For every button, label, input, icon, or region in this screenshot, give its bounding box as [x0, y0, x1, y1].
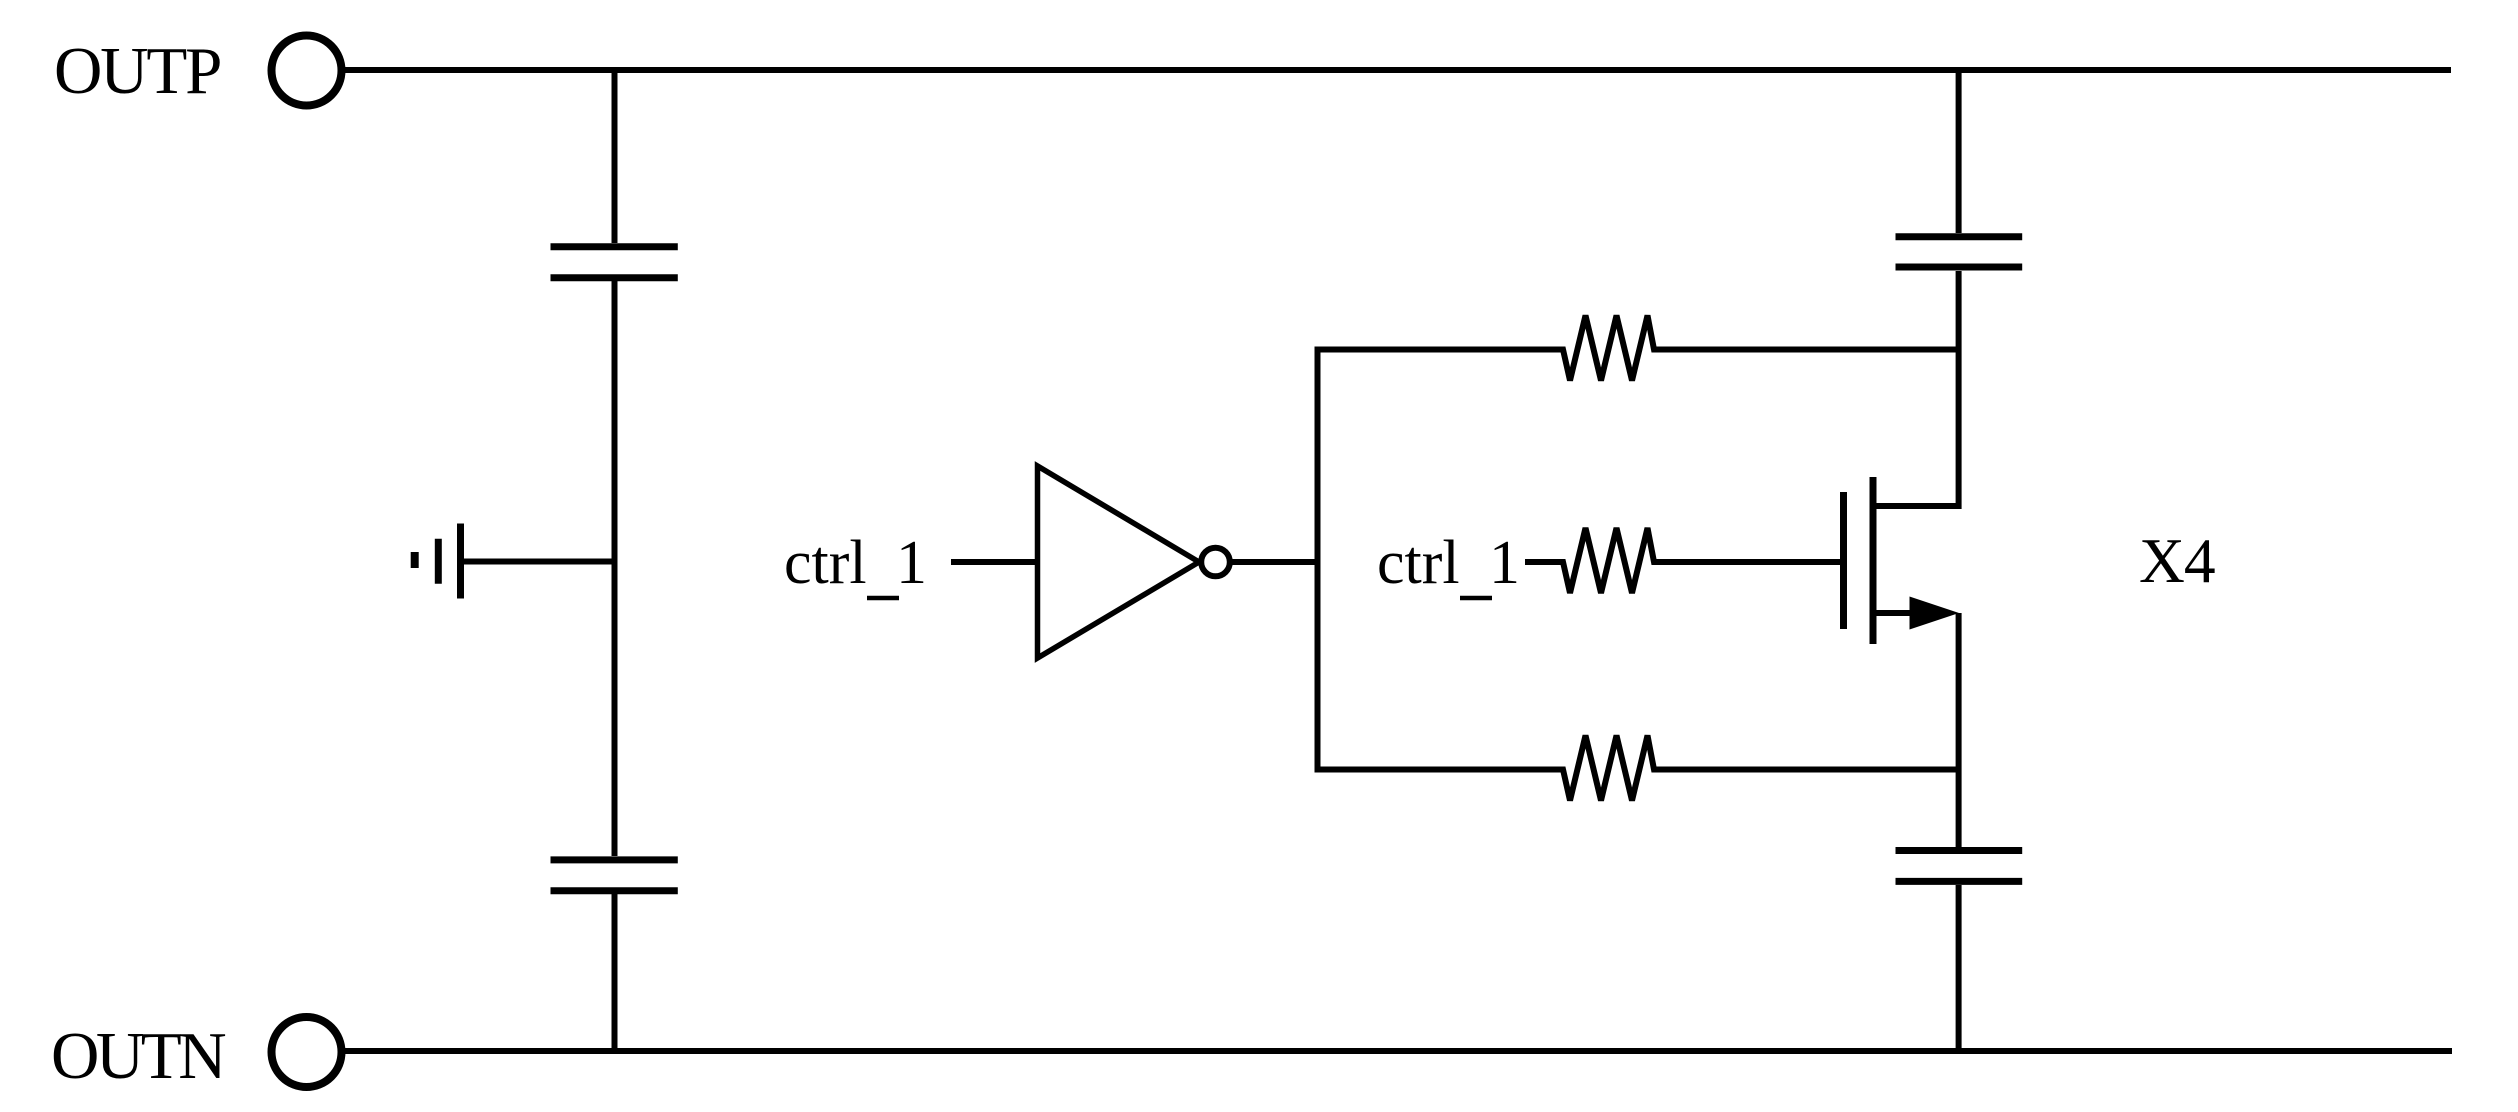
- svg-text:1: 1: [1489, 529, 1520, 597]
- svg-text:ctrl: ctrl: [784, 529, 867, 597]
- svg-text:OUTP: OUTP: [54, 34, 220, 108]
- svg-text:1: 1: [896, 529, 927, 597]
- svg-text:OUTN: OUTN: [51, 1019, 225, 1093]
- svg-text:X4: X4: [2139, 525, 2215, 596]
- svg-text:ctrl: ctrl: [1377, 529, 1460, 597]
